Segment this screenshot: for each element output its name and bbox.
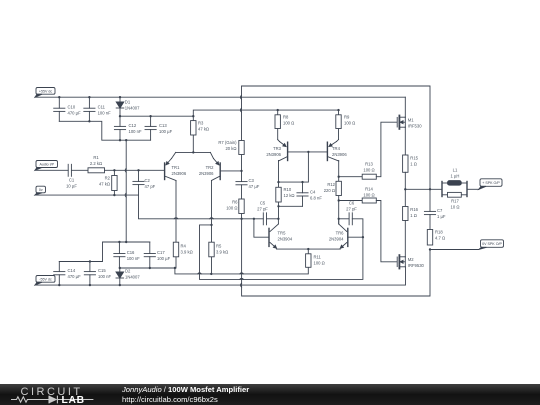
wire hop TR2 collector over ground bus [210,218,214,219]
transistor TR6 [329,219,348,248]
wire L1 to speaker flag [467,188,479,190]
node junction R3 bottom tail [192,151,194,153]
svg-text:C17: C17 [157,250,165,255]
svg-text:C13: C13 [159,123,167,128]
wire bus to C5 [242,218,264,220]
svg-text:2.2 kΩ: 2.2 kΩ [90,161,102,166]
svg-text:+55V dc: +55V dc [39,89,52,93]
svg-text:TR6: TR6 [336,231,345,236]
svg-text:0V SPK O/P: 0V SPK O/P [482,242,502,246]
svg-text:IRF9530: IRF9530 [408,263,425,268]
svg-text:R10: R10 [284,187,292,192]
svg-text:20 kΩ: 20 kΩ [225,146,236,151]
wire TR3 collector to R10 [278,161,280,188]
resistor R12 [324,181,342,195]
wire TR2 base [220,170,241,172]
svg-text:2N3906: 2N3906 [332,152,347,157]
node junction C11 on +55V rail [88,96,90,98]
resistor R3 [191,116,209,152]
wire 0V input [35,194,139,196]
svg-text:3.9 kΩ: 3.9 kΩ [216,250,228,255]
svg-text:1 Ω: 1 Ω [410,162,417,167]
node junction C13 top [149,115,151,117]
node junction C11 bottom [88,120,90,122]
capacitor C7 [424,189,446,229]
node junction R3 top [192,115,194,117]
svg-text:27 pF: 27 pF [346,207,357,212]
svg-text:C16: C16 [127,250,135,255]
svg-text:470 µF: 470 µF [68,111,82,116]
resistor R11 [306,249,325,267]
capacitor C3 [236,171,260,199]
svg-text:TR2: TR2 [206,165,215,170]
svg-text:LAB: LAB [62,395,85,405]
resistor R15 [403,155,419,172]
svg-text:2N3906: 2N3906 [172,171,187,176]
wire TR1 collector to R4 [175,181,177,243]
svg-text:R18: R18 [435,230,443,235]
wire hop feedback line crossing +55V rail [240,95,241,99]
capacitor C12 [114,116,142,140]
svg-text:TR1: TR1 [172,165,181,170]
resistor R16 [403,207,419,221]
capacitor C13 [145,116,173,140]
svg-text:220 Ω: 220 Ω [324,188,335,193]
node junction TR2 base feedback [240,170,242,172]
svg-text:100 Ω: 100 Ω [283,121,294,126]
flag -55V dc supply input [35,276,55,286]
svg-text:C11: C11 [98,105,106,110]
svg-text:C14: C14 [68,268,76,273]
wire hop feedback crossing R8 feed [240,108,241,112]
node junction TR4 collector R13 [338,176,340,178]
wire R14 to M2 gate [376,201,396,262]
svg-text:R12: R12 [327,182,335,187]
svg-text:100 µF: 100 µF [157,256,171,261]
svg-text:R9: R9 [344,115,350,120]
svg-text:3.9 kΩ: 3.9 kΩ [181,250,193,255]
wire hop TR6 drive over negative filtered line [198,273,202,274]
svg-text:R8: R8 [283,115,289,120]
node junction C14 on -55V rail [58,284,60,286]
wire C14 C15 tops [59,242,150,262]
node junction C16 top [118,241,120,243]
node junction C4 top [301,181,303,183]
wire hop ground return crossing -55V rail [241,283,242,287]
resistor R4 [173,242,192,268]
wire TR6 collector to C6 [339,218,349,220]
node junction D2 anode C16 [119,267,121,269]
mosfet M2 [397,255,424,268]
node junction R2 bottom [113,194,115,196]
node junction output node [404,188,406,190]
svg-text:4.7 Ω: 4.7 Ω [435,236,445,241]
svg-text:R3: R3 [198,121,204,126]
flag Audio I/P input [35,161,58,171]
node junction R10 bottom TR5 collector [277,205,279,207]
node junction R2 top [113,169,115,171]
resistor R8 [275,110,294,140]
capacitor C2 [133,170,156,195]
svg-text:10 µF: 10 µF [66,184,77,189]
svg-text:1 µH: 1 µH [451,174,460,179]
wire M1 source to R15 [404,127,406,155]
wire output node to L1 [405,188,442,190]
wire input to C1 [35,169,68,171]
wire decoupling mid vertical [125,140,127,242]
wire C10 C11 bottoms [59,121,150,140]
node junction C10 on +55V rail [58,96,60,98]
transistor TR3 [266,140,287,161]
svg-text:470 µF: 470 µF [68,274,82,279]
svg-text:100 Ω: 100 Ω [363,168,374,173]
svg-text:R4: R4 [181,244,187,249]
wire +55V to M1 drain [404,97,406,117]
svg-text:R5: R5 [216,244,222,249]
svg-text:2N3906: 2N3906 [199,171,214,176]
wire base link down to C4 node [279,152,309,182]
resistor R9 [336,110,355,140]
wire C6 to TR6 base corner [352,219,363,237]
resistor R5 [209,242,228,274]
svg-text:1N4007: 1N4007 [125,106,140,111]
node junction R8 top [277,109,279,111]
svg-text:12 kΩ: 12 kΩ [284,193,295,198]
svg-text:R15: R15 [410,156,418,161]
svg-text:C2: C2 [145,178,151,183]
node junction TR6 base [362,236,364,238]
svg-text:R13: R13 [365,162,373,167]
svg-text:C1: C1 [69,178,75,183]
capacitor C4 [297,182,322,206]
wire C5 to TR5 collector [267,218,279,220]
resistor R6 [226,199,244,219]
svg-text:2N3904: 2N3904 [278,237,293,242]
svg-text:47 kΩ: 47 kΩ [99,182,110,187]
wire -55V rail [35,267,406,285]
flag + SPK O/P output [479,179,502,190]
svg-text:100 Ω: 100 Ω [344,121,355,126]
svg-text:R2: R2 [105,176,111,181]
capacitor C1 [66,164,77,188]
resistor R1 [71,155,104,173]
svg-text:D2: D2 [125,269,131,274]
node junction C12 bottom [119,139,121,141]
node junction R6 bottom ground bus [240,218,242,220]
CircuitLab logo [0,384,110,405]
wire TR2 collector down [211,181,213,243]
svg-text:D1: D1 [125,100,131,105]
svg-text:R16: R16 [410,207,418,212]
wire diff pair tail [176,151,211,153]
svg-text:TR4: TR4 [332,146,341,151]
inductor L1 with parallel resistor R17 [442,168,467,210]
wire R1 to TR1 base [105,169,165,171]
resistor R13 [339,162,377,180]
svg-text:+ SPK O/P: + SPK O/P [482,181,500,185]
wire hop decoupling vertical over 0V wire [125,193,126,197]
wire R15 to R16 output node [404,172,406,206]
wire hop ground return over negative filtered line [240,273,244,274]
node junction R11 top [307,248,309,250]
svg-text:M1: M1 [408,118,414,123]
node junction TR5 base branch [253,218,255,220]
svg-text:C4: C4 [310,190,316,195]
svg-text:R14: R14 [365,187,373,192]
resistor R10 [276,187,295,219]
svg-text:100 nF: 100 nF [127,256,140,261]
svg-text:M2: M2 [408,257,414,262]
svg-text:R11: R11 [314,255,322,260]
svg-text:-55V dc: -55V dc [39,277,52,281]
node junction D2 on -55V rail [119,284,121,286]
svg-text:100 nF: 100 nF [98,111,111,116]
svg-text:47 µF: 47 µF [249,184,260,189]
footer title text [122,385,249,405]
svg-text:100 Ω: 100 Ω [314,261,325,266]
svg-text:1N4007: 1N4007 [125,275,140,280]
wire R10 bottom to C4 bottom [279,205,303,207]
node junction C5 right TR5 collector [277,218,279,220]
transistor TR4 [327,140,347,161]
wire ground bus branch to TR5 base [254,219,269,237]
node junction C17 bottom [149,267,151,269]
capacitor C10 [54,97,81,121]
wire TR2 collector bridge to TR6 base line [200,225,363,280]
svg-text:C7: C7 [437,208,443,213]
svg-text:C10: C10 [68,105,76,110]
capacitor C11 [84,97,111,121]
capacitor C5 [257,201,268,225]
resistor R2 [99,170,117,195]
capacitor C16 [114,242,140,268]
flag 0V SPK O/P output [479,240,504,250]
wire ground bus drop [139,195,242,219]
svg-text:TR3: TR3 [273,146,282,151]
svg-text:R17: R17 [451,199,459,204]
node junction C2 top [137,169,139,171]
wire D1 cathode to R3 top [120,115,193,117]
node junction R4 bottom [174,267,176,269]
resistor R7 (Gain) [218,140,244,171]
wire R3 corner to R8 R9 feed [193,110,338,116]
svg-text:6.8 nF: 6.8 nF [310,196,322,201]
svg-text:Audio I/P: Audio I/P [39,163,54,167]
node junction C6 left [338,218,340,220]
flag +55V dc supply input [35,88,55,98]
wire to 0V speaker flag [430,249,479,251]
svg-text:100 Ω: 100 Ω [363,193,374,198]
node junction D1 cathode C12 [119,115,121,117]
node junction C15 on -55V rail [89,284,91,286]
node junction TR3 collector R10 [277,181,279,183]
wire feedback top loop [242,86,431,189]
transistor TR2 [199,152,220,180]
node junction R12 bottom R14 [338,199,340,201]
wire TR3 TR4 base link [288,151,328,153]
svg-text:2N3906: 2N3906 [266,152,281,157]
capacitor C6 [346,201,357,225]
resistor R18 [427,230,445,246]
wire TR4 collector down [338,161,340,225]
svg-text:R1: R1 [93,155,99,160]
node junction TR2 collector bridge [210,224,212,226]
wire TR5 TR6 emitter tail [277,248,341,250]
capacitor C17 [144,242,170,268]
svg-text:27 pF: 27 pF [257,207,268,212]
svg-text:L1: L1 [453,168,458,173]
wire +55V rail [35,96,405,98]
capacitor C15 [84,262,111,286]
svg-text:1 Ω: 1 Ω [410,213,417,218]
svg-text:C15: C15 [98,268,106,273]
diode D2 [116,268,140,285]
node junction base link to C4 [307,151,309,153]
svg-text:C6: C6 [349,201,355,206]
node junction decoupling mid vertical [125,139,127,141]
svg-text:TR5: TR5 [278,231,287,236]
svg-text:10 Ω: 10 Ω [451,205,460,210]
capacitor C14 [54,262,81,286]
node junction R9 top [337,109,339,111]
node junction feedback takeoff [429,188,431,190]
node junction D1 on +55V rail [119,96,121,98]
wire hop TR1 collector over ground bus [174,218,178,219]
svg-text:C5: C5 [260,201,266,206]
svg-text:100 nF: 100 nF [98,274,111,279]
wire hop TR6 drive over ground return [240,278,244,279]
node junction C15 top [89,260,91,262]
svg-text:0v: 0v [39,188,43,192]
wire negative filtered node [120,267,308,274]
resistor R14 [339,187,377,204]
node junction decoupling mid join [125,241,127,243]
svg-text:C3: C3 [249,178,255,183]
node junction R18 bottom speaker 0V [429,248,431,250]
transistor TR1 [165,152,187,181]
svg-text:100 Ω: 100 Ω [226,206,237,211]
flag 0v input ground [35,186,46,195]
diode D1 [116,97,140,116]
svg-text:2N3904: 2N3904 [329,237,344,242]
wire ground return vertical [242,219,430,296]
svg-text:100 nF: 100 nF [129,129,142,134]
wire hop decoupling vertical over input wire [125,168,126,172]
svg-text:47 pF: 47 pF [145,184,156,189]
svg-text:47 kΩ: 47 kΩ [198,127,209,132]
transistor TR5 [269,219,293,248]
svg-text:IRF530: IRF530 [408,124,422,129]
svg-text:R7 (Gain): R7 (Gain) [218,140,237,145]
wire TR6 base [348,236,363,238]
svg-text:1 µF: 1 µF [437,214,446,219]
wire R16 to M2 drain [404,221,406,257]
svg-text:C12: C12 [129,123,137,128]
wire R13 to M1 gate [376,122,396,177]
node junction R5 bottom [210,273,212,275]
svg-text:R6: R6 [232,200,238,205]
svg-text:100 µF: 100 µF [159,129,173,134]
mosfet M1 [397,116,422,129]
